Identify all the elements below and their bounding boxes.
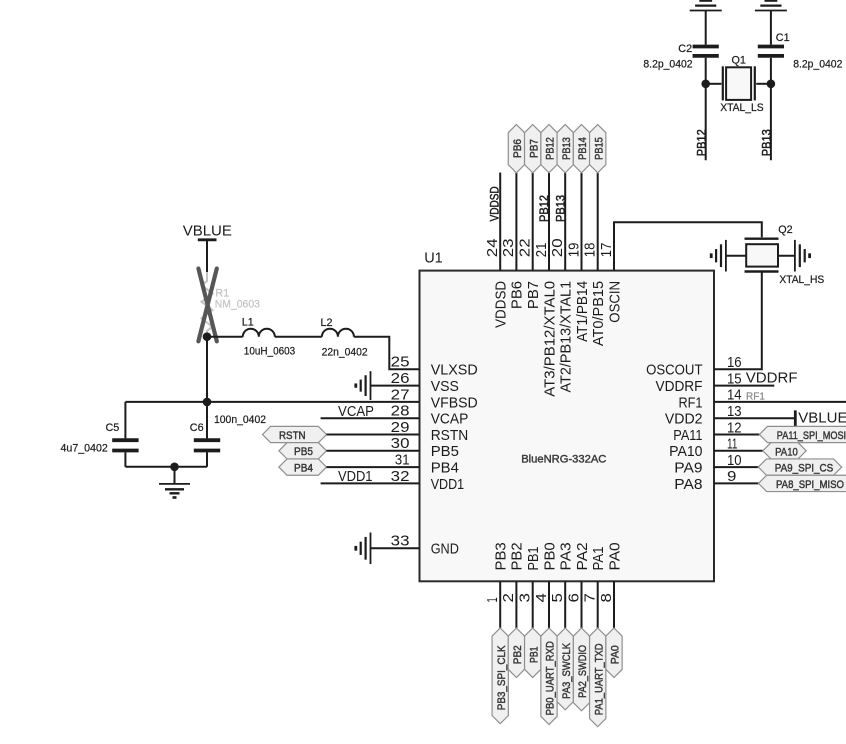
U1 pin 4 (PB0) label	[533, 542, 559, 602]
U1 pin 23 (PB6) label	[500, 238, 526, 309]
svg-text:PB13: PB13	[762, 129, 774, 156]
svg-text:PB12: PB12	[697, 129, 709, 156]
net flag PB6 (top pin 23)	[508, 125, 524, 271]
net flag PB4 (pin 31)	[279, 459, 420, 475]
svg-text:PA8_SPI_MISO: PA8_SPI_MISO	[776, 479, 844, 491]
svg-text:VDDSD: VDDSD	[490, 186, 502, 221]
wire Q2 left lead	[726, 255, 746, 257]
svg-text:26: 26	[391, 370, 410, 387]
svg-text:VBLUE: VBLUE	[798, 410, 846, 427]
svg-text:L1: L1	[242, 317, 254, 329]
net flag PA10 (pin 11)	[714, 443, 806, 459]
svg-text:23: 23	[500, 238, 517, 257]
svg-text:22n_0402: 22n_0402	[322, 346, 368, 358]
svg-text:C2: C2	[678, 43, 692, 55]
svg-text:18: 18	[582, 243, 599, 258]
svg-text:PA3: PA3	[558, 542, 575, 570]
crystal Q2 XTAL_HS	[745, 224, 825, 286]
svg-text:RF1: RF1	[746, 391, 765, 402]
U1 pin 9 (PA8) label	[674, 468, 736, 493]
node junction C6/VFBSD	[203, 398, 212, 407]
U1 pin 1 (PB3) label	[484, 542, 510, 602]
svg-text:C5: C5	[106, 422, 120, 434]
node junction R1/L1/C6	[203, 332, 212, 341]
svg-text:L2: L2	[321, 317, 333, 329]
svg-text:PB15: PB15	[593, 137, 605, 160]
ground (Q2 right)	[795, 240, 810, 272]
U1 pin 30 (PB5) label	[391, 435, 459, 460]
svg-text:R1: R1	[215, 287, 229, 299]
svg-text:8: 8	[598, 593, 615, 602]
ground (above C2, inverted)	[690, 1, 722, 11]
svg-text:OSCOUT: OSCOUT	[646, 362, 702, 379]
svg-text:19: 19	[565, 243, 582, 258]
wire junction to L1	[207, 336, 243, 338]
svg-text:PB5: PB5	[431, 443, 459, 460]
net flag PA3_SWCLK (bottom pin 5)	[557, 581, 573, 710]
svg-text:PB12: PB12	[539, 195, 551, 222]
U1 pin 22 (PB7) label	[517, 238, 543, 309]
svg-text:32: 32	[391, 468, 410, 485]
svg-text:20: 20	[549, 238, 566, 257]
svg-text:33: 33	[391, 533, 410, 550]
svg-text:NM_0603: NM_0603	[215, 299, 260, 311]
net flag RSTN (pin 29)	[263, 426, 420, 442]
capacitor C2 8.2p_0402	[643, 11, 718, 161]
net label PB12 (Q1 left wire)	[697, 129, 709, 156]
U1 pin 15 (VDDRF) label	[656, 370, 742, 395]
ground (Q2 left)	[711, 240, 726, 272]
U1 pin 20 (AT2/PB13/XTAL1) label	[549, 238, 575, 392]
svg-text:PB0: PB0	[541, 542, 558, 570]
svg-text:PA0: PA0	[610, 645, 622, 664]
svg-text:PA11: PA11	[673, 427, 702, 444]
net flag PA2_SWDIO (bottom pin 6)	[573, 581, 589, 711]
svg-text:PA0: PA0	[606, 542, 623, 570]
svg-text:C1: C1	[776, 32, 790, 44]
svg-text:XTAL_LS: XTAL_LS	[720, 102, 764, 114]
svg-text:RSTN: RSTN	[279, 430, 306, 442]
svg-text:XTAL_HS: XTAL_HS	[779, 274, 824, 286]
svg-text:BlueNRG-332AC: BlueNRG-332AC	[521, 453, 606, 465]
svg-text:PB4: PB4	[294, 463, 313, 475]
svg-text:6: 6	[565, 593, 582, 602]
svg-text:17: 17	[598, 243, 615, 258]
svg-text:PA1_UART_TXD: PA1_UART_TXD	[593, 644, 605, 716]
svg-text:VCAP: VCAP	[338, 403, 374, 420]
svg-text:5: 5	[549, 593, 566, 602]
svg-text:OSCIN: OSCIN	[606, 281, 623, 323]
net flag PB15 (top pin 18)	[590, 125, 606, 271]
svg-text:PB6: PB6	[512, 139, 524, 158]
svg-text:PA10: PA10	[775, 446, 798, 458]
U1 pin 31 (PB4) label	[395, 452, 459, 477]
svg-text:PA11_SPI_MOSI: PA11_SPI_MOSI	[777, 430, 846, 442]
net flag PB1 (bottom pin 3)	[525, 581, 541, 677]
U1 pin 10 (PA9) label	[674, 452, 741, 477]
U1 pin 33 (GND) label	[391, 533, 459, 558]
svg-text:PA9: PA9	[674, 460, 702, 477]
svg-text:Q1: Q1	[732, 54, 746, 66]
ground (U1 pin 26 VSS)	[356, 371, 420, 400]
U1 pin 27 (VFBSD) label	[391, 386, 478, 411]
svg-text:VSS: VSS	[431, 378, 459, 395]
svg-text:PB2: PB2	[512, 645, 524, 664]
crystal Q1 XTAL_LS	[706, 54, 771, 114]
svg-text:PA1: PA1	[590, 547, 607, 571]
U1 pin 14 (RF1) label	[679, 387, 742, 412]
svg-text:4u7_0402: 4u7_0402	[61, 442, 108, 454]
svg-text:22: 22	[517, 238, 534, 257]
net flag PB5 (pin 30)	[279, 443, 420, 459]
wire U1 pin 15 with VDDRF net label	[714, 370, 798, 387]
U1 pin 25 (VLXSD) label	[391, 354, 478, 379]
U1 pin 24 (VDDSD) label	[484, 238, 510, 327]
wire U1 pin 24 VDDSD with net label	[490, 173, 502, 271]
U1 pin 2 (PB2) label	[500, 542, 526, 602]
svg-text:4: 4	[533, 593, 550, 602]
svg-text:U1: U1	[424, 251, 443, 267]
svg-text:PA3_SWCLK: PA3_SWCLK	[561, 643, 573, 699]
ground (above C1, inverted)	[755, 1, 787, 11]
net flag PB0_UART_RXD (bottom pin 4)	[541, 581, 557, 724]
svg-text:VDDRF: VDDRF	[746, 370, 798, 387]
U1 pin 11 (PA10) label	[669, 436, 737, 461]
svg-text:VDDSD: VDDSD	[493, 281, 510, 328]
wire VBLUE node down to VFBSD net	[206, 337, 208, 402]
svg-text:Q2: Q2	[778, 224, 792, 236]
svg-text:PA9_SPI_CS: PA9_SPI_CS	[775, 463, 834, 475]
U1 pin 32 (VDD1) label	[391, 468, 464, 493]
svg-text:RSTN: RSTN	[431, 427, 469, 444]
no-mount cross over R1	[198, 269, 216, 342]
U1 pin 6 (PA2) label	[565, 542, 591, 602]
svg-text:8.2p_0402: 8.2p_0402	[793, 59, 842, 71]
svg-text:AT1/PB14: AT1/PB14	[574, 281, 591, 342]
net flag PA1_UART_TXD (bottom pin 7)	[590, 581, 606, 726]
svg-text:PB3_SPI_CLK: PB3_SPI_CLK	[496, 645, 508, 710]
node junction C1/Q1	[767, 80, 776, 89]
net flag PA11_SPI_MOSI (pin 12)	[714, 426, 846, 442]
net flag PA8_SPI_MISO (pin 9)	[714, 475, 846, 491]
svg-text:PB1: PB1	[528, 647, 540, 663]
resistor R1 NM_0603 (not mounted, greyed)	[202, 272, 260, 337]
svg-text:PB6: PB6	[509, 281, 526, 309]
U1 pin 13 (VDD2) label	[665, 403, 742, 428]
svg-text:PB3: PB3	[493, 542, 510, 570]
net flag PB12 (top pin 21)	[539, 125, 557, 271]
svg-text:AT3/PB12/XTAL0: AT3/PB12/XTAL0	[541, 281, 558, 397]
net label PB13 (Q1 right wire)	[762, 129, 774, 156]
svg-text:PA2_SWDIO: PA2_SWDIO	[577, 645, 589, 698]
svg-text:21: 21	[533, 243, 550, 258]
IC U1 BlueNRG-332AC body	[420, 251, 715, 582]
svg-text:PB14: PB14	[577, 137, 589, 160]
svg-text:PB2: PB2	[509, 542, 526, 570]
svg-text:PB13: PB13	[561, 137, 573, 160]
svg-text:PB5: PB5	[294, 446, 313, 458]
svg-text:VLXSD: VLXSD	[431, 362, 478, 379]
svg-text:AT2/PB13/XTAL1: AT2/PB13/XTAL1	[558, 281, 575, 393]
net flag PB14 (top pin 19)	[573, 125, 589, 271]
U1 pin 28 (VCAP) label	[391, 403, 469, 428]
svg-text:VCAP: VCAP	[431, 411, 469, 428]
ground (U1 pin 33 GND)	[356, 533, 420, 565]
U1 pin 16 (OSCOUT) label	[646, 354, 742, 379]
svg-text:PB4: PB4	[431, 460, 459, 477]
svg-text:PB0_UART_RXD: PB0_UART_RXD	[545, 641, 557, 715]
svg-text:2: 2	[500, 593, 517, 602]
inductor L1 10uH_0603	[242, 317, 296, 358]
node junction C2/Q1	[701, 80, 710, 89]
U1 pin 18 (AT0/PB15) label	[582, 243, 608, 346]
svg-text:31: 31	[395, 452, 410, 469]
node junction ground tap	[170, 463, 179, 472]
svg-text:VDDRF: VDDRF	[656, 378, 703, 395]
svg-text:28: 28	[391, 403, 410, 420]
U1 pin 7 (PA1) label	[582, 547, 608, 603]
capacitor C6 100n_0402	[190, 402, 266, 467]
net flag PB13 (top pin 20)	[555, 125, 573, 271]
U1 pin 3 (PB1) label	[517, 547, 543, 603]
svg-text:PA10: PA10	[669, 443, 702, 460]
svg-text:PB13: PB13	[555, 195, 567, 222]
U1 pin 17 (OSCIN) label	[598, 243, 624, 323]
svg-text:AT0/PB15: AT0/PB15	[590, 281, 607, 346]
svg-text:27: 27	[391, 386, 410, 403]
power flag VBLUE (pin 13)	[714, 410, 846, 427]
U1 pin 12 (PA11) label	[673, 419, 741, 444]
inductor L2 22n_0402	[321, 317, 368, 358]
svg-text:25: 25	[391, 354, 410, 371]
wire U1 pin 28 VCAP	[321, 403, 420, 420]
svg-text:VFBSD: VFBSD	[431, 394, 478, 411]
svg-text:1: 1	[484, 597, 501, 602]
wire Q2 to U1 pin 16 OSCOUT	[714, 272, 762, 370]
net flag PB2 (bottom pin 2)	[508, 581, 524, 677]
wire L2 to U1 pin 25 (VLXSD)	[354, 337, 420, 370]
wire Q2 right lead	[778, 255, 795, 257]
svg-text:RF1: RF1	[679, 394, 703, 411]
wire L1 to L2	[275, 336, 322, 338]
U1 pin 8 (PA0) label	[598, 542, 624, 602]
svg-text:7: 7	[582, 593, 599, 602]
net flag PB7 (top pin 22)	[525, 125, 541, 271]
svg-text:PB12: PB12	[545, 137, 557, 160]
svg-text:100n_0402: 100n_0402	[214, 414, 266, 426]
ground (below C5/C6)	[159, 467, 190, 498]
capacitor C5 4u7_0402	[61, 402, 139, 467]
svg-text:GND: GND	[431, 541, 459, 558]
svg-text:VBLUE: VBLUE	[183, 222, 232, 239]
net flag PA9_SPI_CS (pin 10)	[714, 459, 842, 475]
svg-text:PB1: PB1	[525, 547, 542, 571]
svg-text:PA8: PA8	[674, 476, 702, 493]
svg-text:C6: C6	[190, 422, 204, 434]
svg-text:8.2p_0402: 8.2p_0402	[643, 59, 692, 71]
power flag VBLUE (top left)	[183, 222, 232, 240]
wire VBLUE to R1	[206, 240, 208, 272]
net flag PB3_SPI_CLK (bottom pin 1)	[492, 581, 508, 723]
svg-text:10uH_0603: 10uH_0603	[244, 345, 295, 357]
wire C5 to C6 bottom	[125, 466, 207, 468]
U1 pin 21 (AT3/PB12/XTAL0) label	[533, 243, 559, 397]
svg-text:PB7: PB7	[525, 281, 542, 309]
wire VFBSD net to U1 pin 27	[125, 401, 419, 403]
U1 pin 19 (AT1/PB14) label	[565, 243, 591, 342]
svg-text:VDD1: VDD1	[338, 468, 373, 485]
wire U1 pin 32 VDD1	[321, 468, 420, 485]
svg-text:29: 29	[391, 419, 410, 436]
U1 pin 29 (RSTN) label	[391, 419, 469, 444]
net flag PA0 (bottom pin 8)	[606, 581, 622, 677]
wire U1 pin 14 RF1 net	[714, 391, 846, 402]
U1 pin 26 (VSS) label	[391, 370, 459, 395]
svg-text:VDD1: VDD1	[431, 476, 464, 493]
svg-text:30: 30	[391, 435, 410, 452]
svg-text:PB7: PB7	[528, 139, 540, 158]
wire U1 pin 17 OSCIN to Q2	[614, 222, 762, 270]
svg-text:VDD2: VDD2	[665, 411, 703, 428]
capacitor C1 8.2p_0402	[758, 11, 843, 161]
svg-text:3: 3	[517, 593, 534, 602]
U1 pin 5 (PA3) label	[549, 542, 575, 602]
svg-text:PA2: PA2	[574, 542, 591, 570]
svg-text:24: 24	[484, 238, 501, 257]
